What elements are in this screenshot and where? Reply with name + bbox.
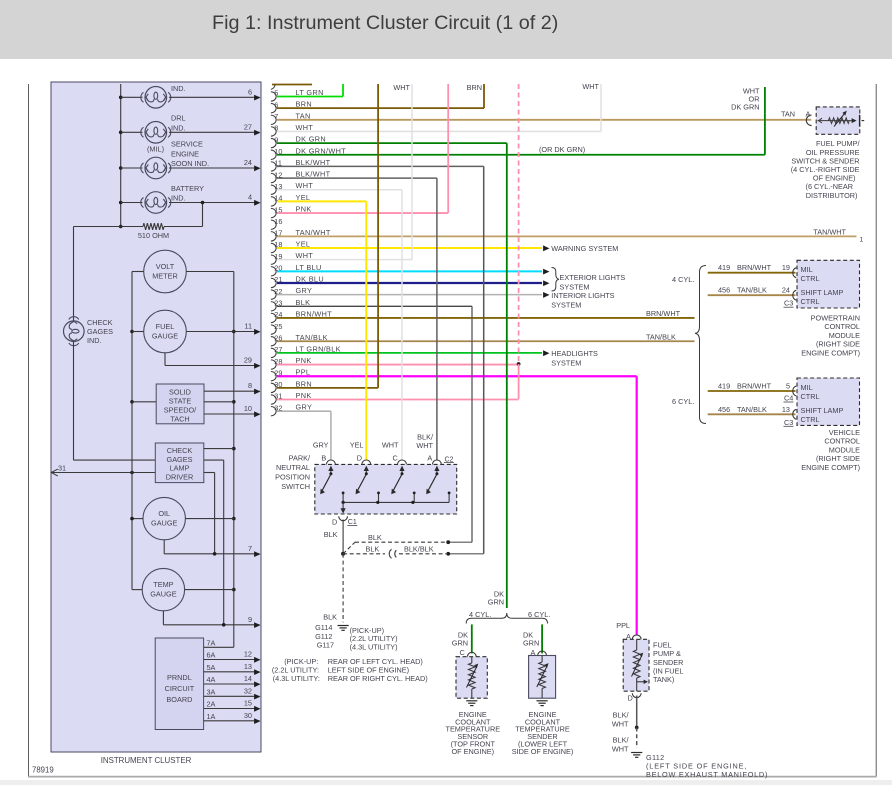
wire fuel gauge left	[132, 331, 144, 333]
wire PRNDL pin 5A to cluster pin 13	[204, 671, 260, 673]
svg-text:PRNDL: PRNDL	[167, 673, 192, 682]
svg-text:19: 19	[782, 263, 790, 272]
svg-text:419: 419	[718, 263, 730, 272]
svg-text:MIL: MIL	[801, 265, 813, 274]
wire oil gauge right	[185, 518, 233, 520]
wire DK GRN to coolant temperature sensor	[471, 624, 473, 653]
svg-text:13: 13	[782, 405, 790, 414]
ground at coolant sensor	[466, 700, 477, 702]
svg-text:1A: 1A	[207, 712, 216, 721]
wire BLK pin23 drop	[471, 306, 473, 542]
svg-text:POSITION: POSITION	[275, 473, 310, 482]
svg-text:BLK/: BLK/	[613, 736, 630, 745]
wire DK GRN/WHT pin10 riser to fuel pump feed	[764, 87, 766, 155]
svg-text:WHT: WHT	[416, 441, 433, 450]
svg-text:WHT: WHT	[582, 82, 599, 91]
connector pin 20 wire LT BLU	[271, 267, 276, 276]
svg-text:D: D	[357, 454, 362, 463]
svg-text:CTRL: CTRL	[801, 392, 820, 401]
svg-text:(OR DK GRN): (OR DK GRN)	[539, 145, 585, 154]
wire C1-D down to splice	[342, 520, 344, 554]
svg-text:GRN: GRN	[523, 639, 539, 648]
svg-text:WARNING SYSTEM: WARNING SYSTEM	[551, 244, 618, 253]
connector pin 22 wire GRY	[271, 290, 276, 299]
svg-text:(4.3L UTILITY): (4.3L UTILITY)	[350, 643, 398, 652]
svg-text:30: 30	[244, 711, 252, 720]
svg-text:FUEL: FUEL	[156, 322, 175, 331]
wire oil gauge left	[132, 518, 143, 520]
connector pin 7 wire TAN	[271, 115, 276, 124]
gauge OIL GAUGE	[143, 497, 185, 539]
svg-text:C: C	[460, 648, 465, 657]
connector pin 14 wire YEL	[271, 197, 276, 206]
svg-text:GAGES: GAGES	[167, 455, 193, 464]
wire PRNDL pin 2A to cluster pin 15	[204, 708, 260, 710]
svg-text:5: 5	[786, 382, 790, 391]
gauge feed bus left vertical	[131, 272, 133, 590]
connector pin 10 wire DK GRN/WHT	[271, 150, 276, 159]
svg-text:C3: C3	[784, 299, 793, 308]
switch terminal C	[398, 460, 407, 464]
svg-text:1: 1	[860, 237, 864, 244]
wire BLK/WHT fuel sender to ground	[636, 696, 638, 728]
connector pin 19 wire WHT	[271, 255, 276, 264]
wire node 31 to check gages lamp driver	[51, 472, 155, 474]
svg-text:510 OHM: 510 OHM	[138, 231, 169, 240]
wire DK GRN pin9 drop	[506, 143, 508, 608]
component fuel pump / oil pressure switch and sender	[816, 107, 860, 134]
wire temp gauge left	[132, 589, 142, 591]
svg-text:GRN: GRN	[452, 639, 468, 648]
svg-text:SERVICE: SERVICE	[171, 140, 203, 149]
svg-text:CTRL: CTRL	[801, 274, 820, 283]
svg-text:7: 7	[248, 544, 252, 553]
wire speedo left	[132, 401, 156, 403]
svg-text:DK GRN: DK GRN	[731, 103, 759, 112]
svg-text:BRN/WHT: BRN/WHT	[646, 309, 681, 318]
wire WHT pin8 riser	[600, 84, 602, 131]
svg-text:PARK/: PARK/	[289, 454, 311, 463]
svg-text:YEL: YEL	[350, 440, 364, 449]
svg-text:4A: 4A	[207, 675, 216, 684]
svg-text:419: 419	[718, 382, 730, 391]
svg-text:G114: G114	[315, 623, 332, 632]
wire LT GRN pin5 riser	[342, 84, 344, 97]
connector pin 5 wire LT GRN	[271, 92, 276, 101]
svg-text:WHT: WHT	[382, 440, 399, 449]
wire fuel gauge to pin 29	[164, 353, 166, 366]
wire PRNDL pin 7A	[204, 646, 234, 648]
switch blade D	[357, 475, 366, 492]
svg-text:4: 4	[248, 193, 252, 202]
svg-text:CONTROL: CONTROL	[824, 437, 860, 446]
svg-text:C: C	[393, 454, 398, 463]
svg-text:HEADLIGHTS: HEADLIGHTS	[551, 349, 598, 358]
wire check gages lamp to lamp driver	[73, 342, 75, 460]
wire BLK dashed upper branch to pin23 BLK	[343, 542, 355, 554]
svg-text:BRN: BRN	[467, 83, 482, 92]
svg-text:13: 13	[244, 662, 252, 671]
svg-text:CTRL: CTRL	[801, 297, 820, 306]
switch PARK/NEUTRAL POSITION SWITCH	[315, 464, 457, 514]
wire PRNDL pin 1A to cluster pin 30	[204, 720, 260, 722]
wire oil gauge to pin 7	[163, 540, 165, 554]
svg-text:SIDE OF ENGINE): SIDE OF ENGINE)	[512, 747, 574, 756]
wire lamp driver right low	[204, 472, 215, 474]
wire DK GRN to coolant temperature sender	[541, 624, 543, 653]
ground G114/G112/G117	[338, 625, 349, 627]
svg-text:6A: 6A	[207, 651, 216, 660]
wire PRNDL pin 6A to cluster pin 12	[204, 659, 260, 661]
svg-text:IND.: IND.	[171, 123, 186, 132]
svg-text:DISTRIBUTOR): DISTRIBUTOR)	[806, 191, 858, 200]
svg-text:ENGINE COMPT): ENGINE COMPT)	[801, 463, 860, 472]
svg-text:5A: 5A	[207, 663, 216, 672]
connector pin 13 wire WHT	[271, 185, 276, 194]
wire temp gauge right	[185, 589, 234, 591]
svg-text:IND.: IND.	[171, 194, 186, 203]
svg-text:16: 16	[274, 217, 282, 226]
svg-text:PPL: PPL	[616, 621, 630, 630]
wire BRN pin6 riser	[483, 84, 485, 108]
svg-text:SHIFT LAMP: SHIFT LAMP	[801, 406, 844, 415]
wire speedo to pin 8	[204, 390, 260, 392]
wire LT GRN/BLK pin27 to headlights system	[543, 350, 549, 356]
svg-text:6 CYL.: 6 CYL.	[672, 397, 694, 406]
gauge FUEL GAUGE	[144, 310, 187, 353]
svg-text:27: 27	[244, 122, 252, 131]
partial connector row above pin 5	[272, 84, 312, 86]
wire GRY pin22 to interior lights system	[543, 292, 549, 298]
gauge output bus right vertical	[233, 272, 235, 648]
switch output to C1	[342, 502, 344, 511]
svg-text:BLK: BLK	[323, 613, 337, 622]
svg-text:WHT: WHT	[296, 123, 314, 132]
svg-text:IND.: IND.	[171, 84, 186, 93]
svg-text:8: 8	[248, 381, 252, 390]
connector pin 8 wire WHT	[271, 127, 276, 136]
svg-text:BLK: BLK	[368, 533, 382, 542]
connector pin 26 wire TAN/BLK	[271, 337, 276, 346]
svg-text:25: 25	[274, 322, 282, 331]
wire to indicator lamp SERVICE ENGINE SOON IND (MIL)	[121, 167, 143, 169]
svg-text:BELOW EXHAUST MANIFOLD): BELOW EXHAUST MANIFOLD)	[646, 770, 768, 779]
svg-text:TEMP: TEMP	[153, 580, 173, 589]
switch contact stub A	[448, 493, 450, 503]
connector pin 29 wire PPL	[271, 372, 276, 381]
svg-text:C1: C1	[348, 519, 357, 526]
wire to indicator lamp DRL IND	[121, 131, 143, 133]
svg-text:SYSTEM: SYSTEM	[551, 359, 581, 368]
module PRNDL CIRCUIT BOARD	[155, 638, 203, 730]
svg-text:OIL: OIL	[158, 509, 170, 518]
wire to indicator lamp IND	[121, 96, 143, 98]
svg-text:SYSTEM: SYSTEM	[551, 300, 581, 309]
gauge TEMP GAUGE	[142, 568, 184, 610]
svg-text:TACH: TACH	[170, 414, 189, 423]
wire to indicator lamp BATTERY IND	[121, 202, 143, 204]
svg-text:BRN/WHT: BRN/WHT	[737, 263, 772, 272]
svg-text:WHT: WHT	[296, 181, 314, 190]
svg-text:TANK): TANK)	[653, 675, 674, 684]
connector pin 16	[271, 220, 276, 229]
svg-text:WHT: WHT	[612, 720, 629, 729]
svg-text:CIRCUIT: CIRCUIT	[165, 684, 195, 693]
module SOLID STATE SPEEDO/TACH	[156, 384, 204, 424]
connector pin 25	[271, 325, 276, 334]
svg-text:32: 32	[244, 686, 252, 695]
splice junction	[341, 552, 345, 556]
svg-text:BLK/BLK: BLK/BLK	[404, 545, 434, 554]
svg-text:4 CYL.: 4 CYL.	[672, 275, 694, 284]
svg-text:11: 11	[244, 322, 252, 331]
svg-text:(MIL): (MIL)	[147, 145, 164, 154]
svg-text:D: D	[628, 694, 633, 703]
instrument cluster panel	[51, 82, 261, 752]
wire temp gauge to pin 9	[162, 611, 164, 625]
svg-text:31: 31	[58, 464, 66, 473]
wire fuel gauge to pin 11	[186, 331, 259, 333]
svg-text:BLK: BLK	[366, 545, 380, 554]
svg-text:VOLT: VOLT	[156, 262, 175, 271]
svg-text:GAGES: GAGES	[87, 327, 113, 336]
svg-text:BRN/WHT: BRN/WHT	[737, 382, 772, 391]
svg-text:G112: G112	[315, 632, 332, 641]
svg-text:78919: 78919	[32, 766, 54, 775]
svg-text:OF ENGINE): OF ENGINE)	[452, 747, 495, 756]
connector pin 27 wire LT GRN/BLK	[271, 348, 276, 357]
connector pin 9 wire DK GRN	[271, 138, 276, 147]
sensor engine coolant temperature sensor (4 cyl)	[456, 657, 487, 699]
svg-text:29: 29	[244, 356, 252, 365]
svg-text:7A: 7A	[207, 638, 216, 647]
wire WHT pin13 drop to switch C	[401, 190, 403, 461]
indicator lamp IND	[145, 87, 167, 109]
svg-text:24: 24	[782, 286, 790, 295]
wire speedo right middle	[204, 401, 234, 403]
dashed PNK wire riser to pins 28/31	[518, 84, 520, 364]
svg-text:(IN FUEL: (IN FUEL	[653, 666, 683, 675]
wire BLK/WHT pin11 drop	[483, 166, 485, 553]
gauge VOLT METER	[144, 250, 187, 293]
wire BLK/WHT pin12 drop to switch A	[436, 178, 438, 460]
wire bus to check gages lamp	[74, 226, 121, 228]
svg-text:SOON IND.: SOON IND.	[171, 159, 209, 168]
connector at fuel pump/oil pressure switch	[806, 115, 811, 126]
node splice PNK	[517, 362, 521, 366]
svg-text:BLK/WHT: BLK/WHT	[296, 158, 331, 167]
svg-text:C4: C4	[784, 394, 793, 403]
svg-text:IND.: IND.	[87, 336, 102, 345]
wire lamp to cluster pin 27	[169, 131, 260, 133]
ground G112	[631, 752, 642, 754]
wire lamp driver right mid	[204, 459, 224, 461]
svg-text:MODULE: MODULE	[829, 331, 860, 340]
svg-text:TAN/BLK: TAN/BLK	[737, 405, 767, 414]
svg-text:TAN/BLK: TAN/BLK	[737, 286, 767, 295]
module vehicle control module	[797, 378, 860, 425]
connector pin 6 wire BRN	[271, 103, 276, 112]
svg-text:(RIGHT SIDE: (RIGHT SIDE	[816, 454, 860, 463]
wire lamp to cluster pin 24	[169, 167, 260, 169]
svg-text:METER: METER	[152, 272, 178, 281]
indicator lamp SERVICE ENGINE SOON IND (MIL)	[145, 157, 167, 179]
connector pin 23 wire BLK	[271, 302, 276, 311]
svg-text:(RIGHT SIDE: (RIGHT SIDE	[816, 340, 860, 349]
lamp CHECK GAGES IND	[63, 317, 84, 346]
svg-text:BLK/: BLK/	[613, 711, 630, 720]
wire BLK dashed lower branch to pin11 BLK/WHT	[343, 553, 385, 555]
svg-text:TAN/WHT: TAN/WHT	[813, 227, 846, 236]
wire BLK/WHT dashed to G112	[636, 728, 638, 749]
module CHECK GAGES LAMP DRIVER	[155, 443, 204, 483]
terminal D fuel sender	[632, 693, 641, 697]
svg-text:B: B	[321, 454, 326, 463]
svg-text:6: 6	[248, 87, 252, 96]
wire LT BLU pin20 arrow	[543, 269, 549, 275]
switch common bus	[343, 501, 449, 503]
brace to powertrain/vehicle control modules	[695, 266, 706, 424]
svg-text:15: 15	[244, 699, 252, 708]
connector pin 11 wire BLK/WHT	[271, 162, 276, 171]
switch contact stub B	[342, 493, 344, 503]
svg-text:PUMP &: PUMP &	[653, 649, 681, 658]
connector pin 18 wire YEL	[271, 243, 276, 252]
wire resistor to battery lamp pin wire	[202, 203, 204, 227]
svg-text:C3: C3	[784, 418, 793, 427]
connector pin 17 wire TAN/WHT	[271, 232, 276, 241]
switch contact stub D	[378, 493, 380, 503]
svg-text:A: A	[427, 454, 432, 463]
svg-text:NEUTRAL: NEUTRAL	[276, 463, 310, 472]
wire BRN pin30 riser	[377, 84, 379, 388]
wire GRY pin32 drop to switch B	[330, 411, 332, 460]
svg-text:DRIVER: DRIVER	[166, 472, 194, 481]
svg-text:TAN/BLK: TAN/BLK	[646, 333, 676, 342]
wire lamp driver right top	[204, 448, 234, 450]
svg-text:456: 456	[718, 286, 730, 295]
svg-text:GRY: GRY	[296, 403, 313, 412]
svg-text:GAUGE: GAUGE	[152, 332, 178, 341]
wire PRNDL pin 4A to cluster pin 14	[204, 683, 260, 685]
svg-text:SHIFT LAMP: SHIFT LAMP	[801, 288, 844, 297]
svg-text:EXTERIOR LIGHTS: EXTERIOR LIGHTS	[560, 273, 626, 282]
svg-text:10: 10	[244, 404, 252, 413]
connector pin 28 wire PNK	[271, 360, 276, 369]
connector pin 32 wire GRY	[271, 406, 276, 415]
svg-text:9: 9	[248, 615, 252, 624]
lamp supply bus wire	[120, 84, 122, 227]
svg-text:2A: 2A	[207, 700, 216, 709]
svg-text:6 CYL.: 6 CYL.	[528, 610, 550, 619]
wire WHT pin19 riser	[411, 84, 413, 260]
switch terminal A	[433, 460, 442, 464]
svg-text:3A: 3A	[207, 687, 216, 696]
svg-text:BLK: BLK	[324, 530, 338, 539]
drawing frame	[28, 84, 30, 777]
svg-text:WHT: WHT	[296, 251, 314, 260]
svg-text:INTERIOR LIGHTS: INTERIOR LIGHTS	[551, 291, 614, 300]
connector pin 30 wire BRN	[271, 383, 276, 392]
sender engine coolant temperature sender (6 cyl)	[529, 656, 556, 699]
svg-text:SWITCH: SWITCH	[281, 482, 310, 491]
svg-text:BOARD: BOARD	[166, 695, 192, 704]
svg-text:BLK: BLK	[296, 298, 311, 307]
svg-text:A: A	[806, 110, 811, 119]
wire PNK pin15 riser	[447, 84, 449, 213]
brace exterior lights	[552, 268, 560, 292]
svg-text:WHT: WHT	[393, 83, 410, 92]
svg-text:MIL: MIL	[801, 383, 813, 392]
connector pin 24 wire BRN/WHT	[271, 313, 276, 322]
connector pin 12 wire BLK/WHT	[271, 173, 276, 182]
svg-text:STATE: STATE	[169, 396, 192, 405]
wire 419 BRN/WHT pin 5	[708, 390, 796, 392]
svg-text:CTRL: CTRL	[801, 415, 820, 424]
svg-text:CHECK: CHECK	[87, 318, 113, 327]
svg-text:INSTRUMENT CLUSTER: INSTRUMENT CLUSTER	[101, 756, 192, 765]
svg-text:VEHICLE: VEHICLE	[829, 428, 860, 437]
connector pin 31 wire PNK	[271, 395, 276, 404]
indicator lamp DRL IND	[145, 122, 167, 144]
wire lamp to cluster pin 4	[169, 202, 260, 204]
svg-text:ENGINE: ENGINE	[171, 149, 199, 158]
svg-text:SPEEDO/: SPEEDO/	[164, 405, 197, 414]
wire volt meter left	[132, 271, 144, 273]
splice	[635, 726, 639, 730]
wire PPL pin29 drop to fuel pump sender	[636, 376, 638, 635]
switch blade C	[393, 475, 402, 492]
wire BLK dashed to ground G114/G112/G117	[342, 554, 344, 623]
wire YEL pin18 to warning system	[543, 245, 549, 251]
svg-text:CONTROL: CONTROL	[824, 322, 860, 331]
wire vertical to pin 9 line	[223, 460, 225, 625]
switch blade B	[322, 475, 331, 492]
component fuel pump and sender	[623, 639, 649, 691]
svg-text:SOLID: SOLID	[169, 387, 191, 396]
svg-text:14: 14	[244, 674, 252, 683]
svg-text:FUEL: FUEL	[653, 641, 672, 650]
svg-text:G117: G117	[317, 641, 334, 650]
svg-text:4 CYL.: 4 CYL.	[469, 610, 491, 619]
wire 419 BRN/WHT pin 19	[708, 272, 796, 274]
svg-text:MODULE: MODULE	[829, 445, 860, 454]
wire PNK pin31 riser	[518, 364, 520, 399]
svg-text:D: D	[332, 518, 337, 527]
svg-text:GAUGE: GAUGE	[150, 590, 176, 599]
switch terminal B	[327, 460, 336, 464]
svg-text:GRY: GRY	[296, 286, 313, 295]
wire vertical to pin 7 line	[214, 473, 216, 554]
wire 456 TAN/BLK pin 24	[708, 294, 796, 296]
svg-text:GRY: GRY	[313, 440, 329, 449]
ground at coolant sender	[537, 700, 548, 702]
switch blade A	[428, 475, 437, 492]
svg-text:12: 12	[244, 650, 252, 659]
connector pin 21 wire DK BLU	[271, 278, 276, 287]
module powertrain control module	[797, 260, 860, 308]
svg-text:456: 456	[718, 405, 730, 414]
svg-text:DRL: DRL	[171, 114, 186, 123]
svg-text:REAR OF RIGHT CYL. HEAD): REAR OF RIGHT CYL. HEAD)	[328, 674, 428, 683]
svg-text:SENDER: SENDER	[653, 658, 683, 667]
svg-text:(4.3L UTILITY:: (4.3L UTILITY:	[273, 674, 320, 683]
resistor 510 OHM	[121, 226, 143, 228]
wire DK BLU pin21 arrow	[543, 280, 549, 286]
svg-text:BLK/WHT: BLK/WHT	[296, 170, 331, 179]
svg-text:WHT: WHT	[612, 745, 629, 754]
svg-text:GAUGE: GAUGE	[151, 519, 177, 528]
